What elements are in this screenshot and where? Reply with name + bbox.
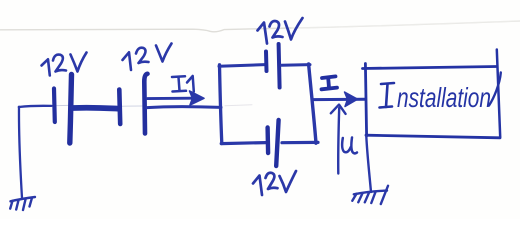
parallel group top wire right segment <box>282 63 311 67</box>
battery B2 negative plate (short) <box>117 90 122 125</box>
wire: battery B2 to parallel group <box>147 105 221 109</box>
battery B1 negative plate (short) <box>52 89 57 123</box>
parallel group bottom wire right segment <box>282 141 318 145</box>
battery B4 negative plate (short) <box>265 128 270 154</box>
label I1 <box>172 76 194 92</box>
wire: parallel group to installation <box>313 98 365 101</box>
current arrow I (arrowhead) <box>345 92 358 107</box>
label Installation <box>380 73 501 114</box>
battery B1 positive plate (long) <box>70 75 72 144</box>
parallel group top wire left segment <box>219 65 265 67</box>
battery B4 positive plate (long) <box>276 120 278 166</box>
svg-text:nstallation: nstallation <box>397 82 491 113</box>
ground (right) <box>352 186 388 204</box>
current arrow I1 <box>148 91 205 105</box>
wire: left vertical down to ground <box>19 107 22 198</box>
label 12V (battery B3, top) <box>258 18 303 44</box>
installation box <box>363 50 501 138</box>
label u <box>342 138 357 154</box>
battery B2 positive plate (long) <box>144 74 147 134</box>
wire: bold segment between battery B1 and battery B2 <box>73 105 118 112</box>
wire: installation to ground <box>366 136 371 192</box>
battery B3 positive plate (long) <box>279 44 280 88</box>
parallel group right vertical wire <box>309 64 316 143</box>
parallel group bottom wire left segment <box>221 143 265 144</box>
parallel group left vertical wire <box>220 65 222 144</box>
label 12V (battery B1) <box>42 53 87 76</box>
label 12V (battery B2) <box>123 44 172 71</box>
label I <box>322 76 338 89</box>
battery B3 negative plate (short) <box>264 52 269 72</box>
wire: left horizontal from corner to battery B1 <box>19 106 52 107</box>
voltage arrow u <box>331 105 346 174</box>
label 12V (battery B4, bottom) <box>253 171 296 195</box>
ground (left) <box>10 197 35 210</box>
